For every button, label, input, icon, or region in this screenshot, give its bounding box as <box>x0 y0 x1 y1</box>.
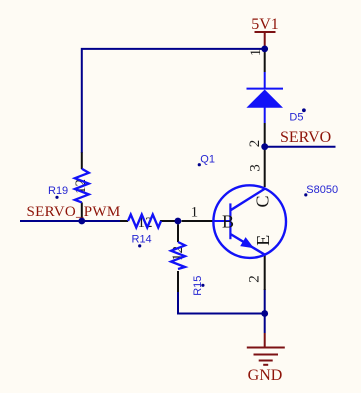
svg-text:C: C <box>252 195 272 207</box>
svg-text:5V1: 5V1 <box>251 16 279 33</box>
svg-text:S8050: S8050 <box>306 184 338 196</box>
svg-text:Q1: Q1 <box>200 154 215 166</box>
svg-text:B: B <box>222 211 234 231</box>
svg-text:R14: R14 <box>132 234 152 246</box>
svg-text:SERVO_PWM: SERVO_PWM <box>27 204 121 220</box>
svg-text:R19: R19 <box>48 185 68 197</box>
svg-text:E: E <box>253 235 273 246</box>
svg-text:D5: D5 <box>289 112 303 124</box>
svg-text:3: 3 <box>248 164 264 172</box>
svg-text:2: 2 <box>247 275 263 283</box>
svg-text:1: 1 <box>191 204 199 220</box>
svg-text:GND: GND <box>248 367 283 384</box>
svg-text:2: 2 <box>247 140 263 148</box>
svg-text:SERVO: SERVO <box>280 129 331 146</box>
